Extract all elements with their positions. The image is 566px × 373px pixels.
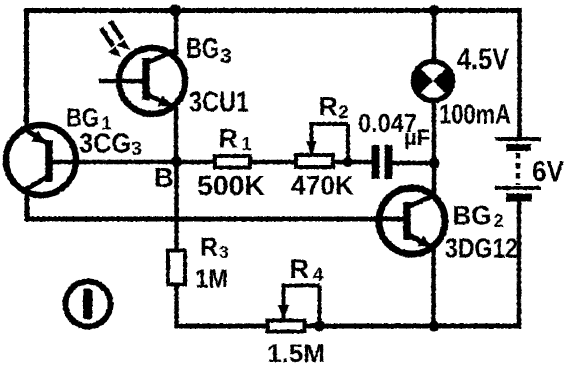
wire capacitor to node at lamp branch: [392, 161, 436, 166]
svg-text:BG: BG: [453, 201, 492, 231]
svg-text:R: R: [200, 234, 218, 262]
wire node B down through R3: [174, 161, 179, 251]
svg-text:3DG12: 3DG12: [445, 233, 518, 264]
wire top rail: [24, 8, 521, 13]
node BG2 emitter / bottom rail: [429, 321, 440, 332]
svg-text:BG: BG: [186, 33, 219, 65]
svg-text:1.5M: 1.5M: [267, 340, 325, 368]
capacitor C 0.047uF right plate: [385, 145, 393, 179]
potentiometer R4 1.5M body: [268, 321, 305, 332]
potentiometer R4 wiper bracket: [278, 286, 320, 327]
potentiometer R2 470K body: [296, 155, 333, 167]
wire lamp to node above BG2: [432, 100, 437, 165]
transistor BG2 (3DG12): [379, 188, 445, 254]
svg-text:µF: µF: [404, 125, 430, 150]
battery 6V bottom cell short thick plate: [506, 194, 532, 202]
wire lamp to top rail: [432, 8, 437, 62]
svg-text:3: 3: [220, 45, 232, 68]
svg-text:2: 2: [494, 211, 504, 231]
wire mid rail B node to R1: [52, 160, 216, 165]
svg-text:B: B: [154, 162, 174, 193]
wire R3 to bottom rail: [174, 284, 179, 329]
transistor BG3 (3CU1 photo): [99, 48, 185, 114]
wire right vertical bottom (battery to bottom rail): [517, 200, 522, 329]
light arrow 2: [110, 21, 130, 50]
svg-text:3: 3: [131, 138, 142, 160]
node capacitor / lamp / BG2 collector: [429, 158, 440, 169]
svg-text:R: R: [319, 92, 338, 122]
svg-text:2: 2: [339, 102, 349, 122]
node R4 wiper / bottom rail: [314, 321, 325, 332]
wire BG3 emitter to node B: [174, 105, 179, 163]
wire right vertical top (rail to battery): [517, 8, 522, 138]
svg-text:R: R: [290, 254, 310, 284]
wire R2 to capacitor: [332, 160, 372, 165]
node R2 wiper / mid rail: [343, 157, 353, 167]
svg-text:3: 3: [219, 242, 229, 262]
potentiometer R2 wiper bracket: [306, 124, 348, 162]
node B: [171, 156, 182, 167]
figure number circle 1: [66, 282, 111, 327]
wire left vertical (BG1 collector down to lower rail): [25, 189, 30, 221]
wire BG3 collector to top rail: [174, 8, 179, 55]
svg-text:1: 1: [242, 134, 252, 154]
svg-text:1M: 1M: [195, 264, 228, 294]
svg-text:4: 4: [313, 264, 324, 285]
node top rail / BG3 collector: [170, 5, 182, 17]
wire node to BG2 collector: [432, 163, 437, 197]
battery 6V top cell long plate: [495, 137, 541, 141]
resistor R1 500K: [215, 156, 250, 168]
svg-text:4.5V: 4.5V: [457, 43, 509, 76]
battery dashed middle: [516, 153, 521, 185]
svg-text:500K: 500K: [197, 170, 265, 201]
wire R1 to R2: [249, 160, 297, 165]
svg-text:3CG: 3CG: [79, 128, 131, 159]
svg-text:470K: 470K: [291, 171, 354, 201]
svg-text:6V: 6V: [532, 156, 564, 188]
wire lower horizontal rail (BG1 collector to BG2 base): [25, 217, 405, 222]
battery 6V bottom cell long plate: [495, 186, 541, 190]
svg-text:R: R: [219, 124, 238, 154]
svg-text:100mA: 100mA: [439, 99, 511, 130]
wire BG2 emitter to bottom rail: [431, 248, 436, 328]
transistor BG1 (3CG3): [6, 125, 76, 195]
battery 6V top cell short thick plate: [506, 144, 531, 151]
wire left vertical (top segment to BG1 emitter): [24, 8, 29, 132]
resistor R3 1M body: [168, 251, 185, 285]
light arrow 1: [101, 28, 121, 57]
wire bottom rail: [175, 324, 522, 329]
node top rail / lamp: [429, 5, 440, 16]
capacitor C 0.047uF left plate: [372, 145, 380, 179]
lamp 4.5V 100mA: [413, 62, 452, 101]
svg-text:3CU1: 3CU1: [189, 87, 249, 119]
